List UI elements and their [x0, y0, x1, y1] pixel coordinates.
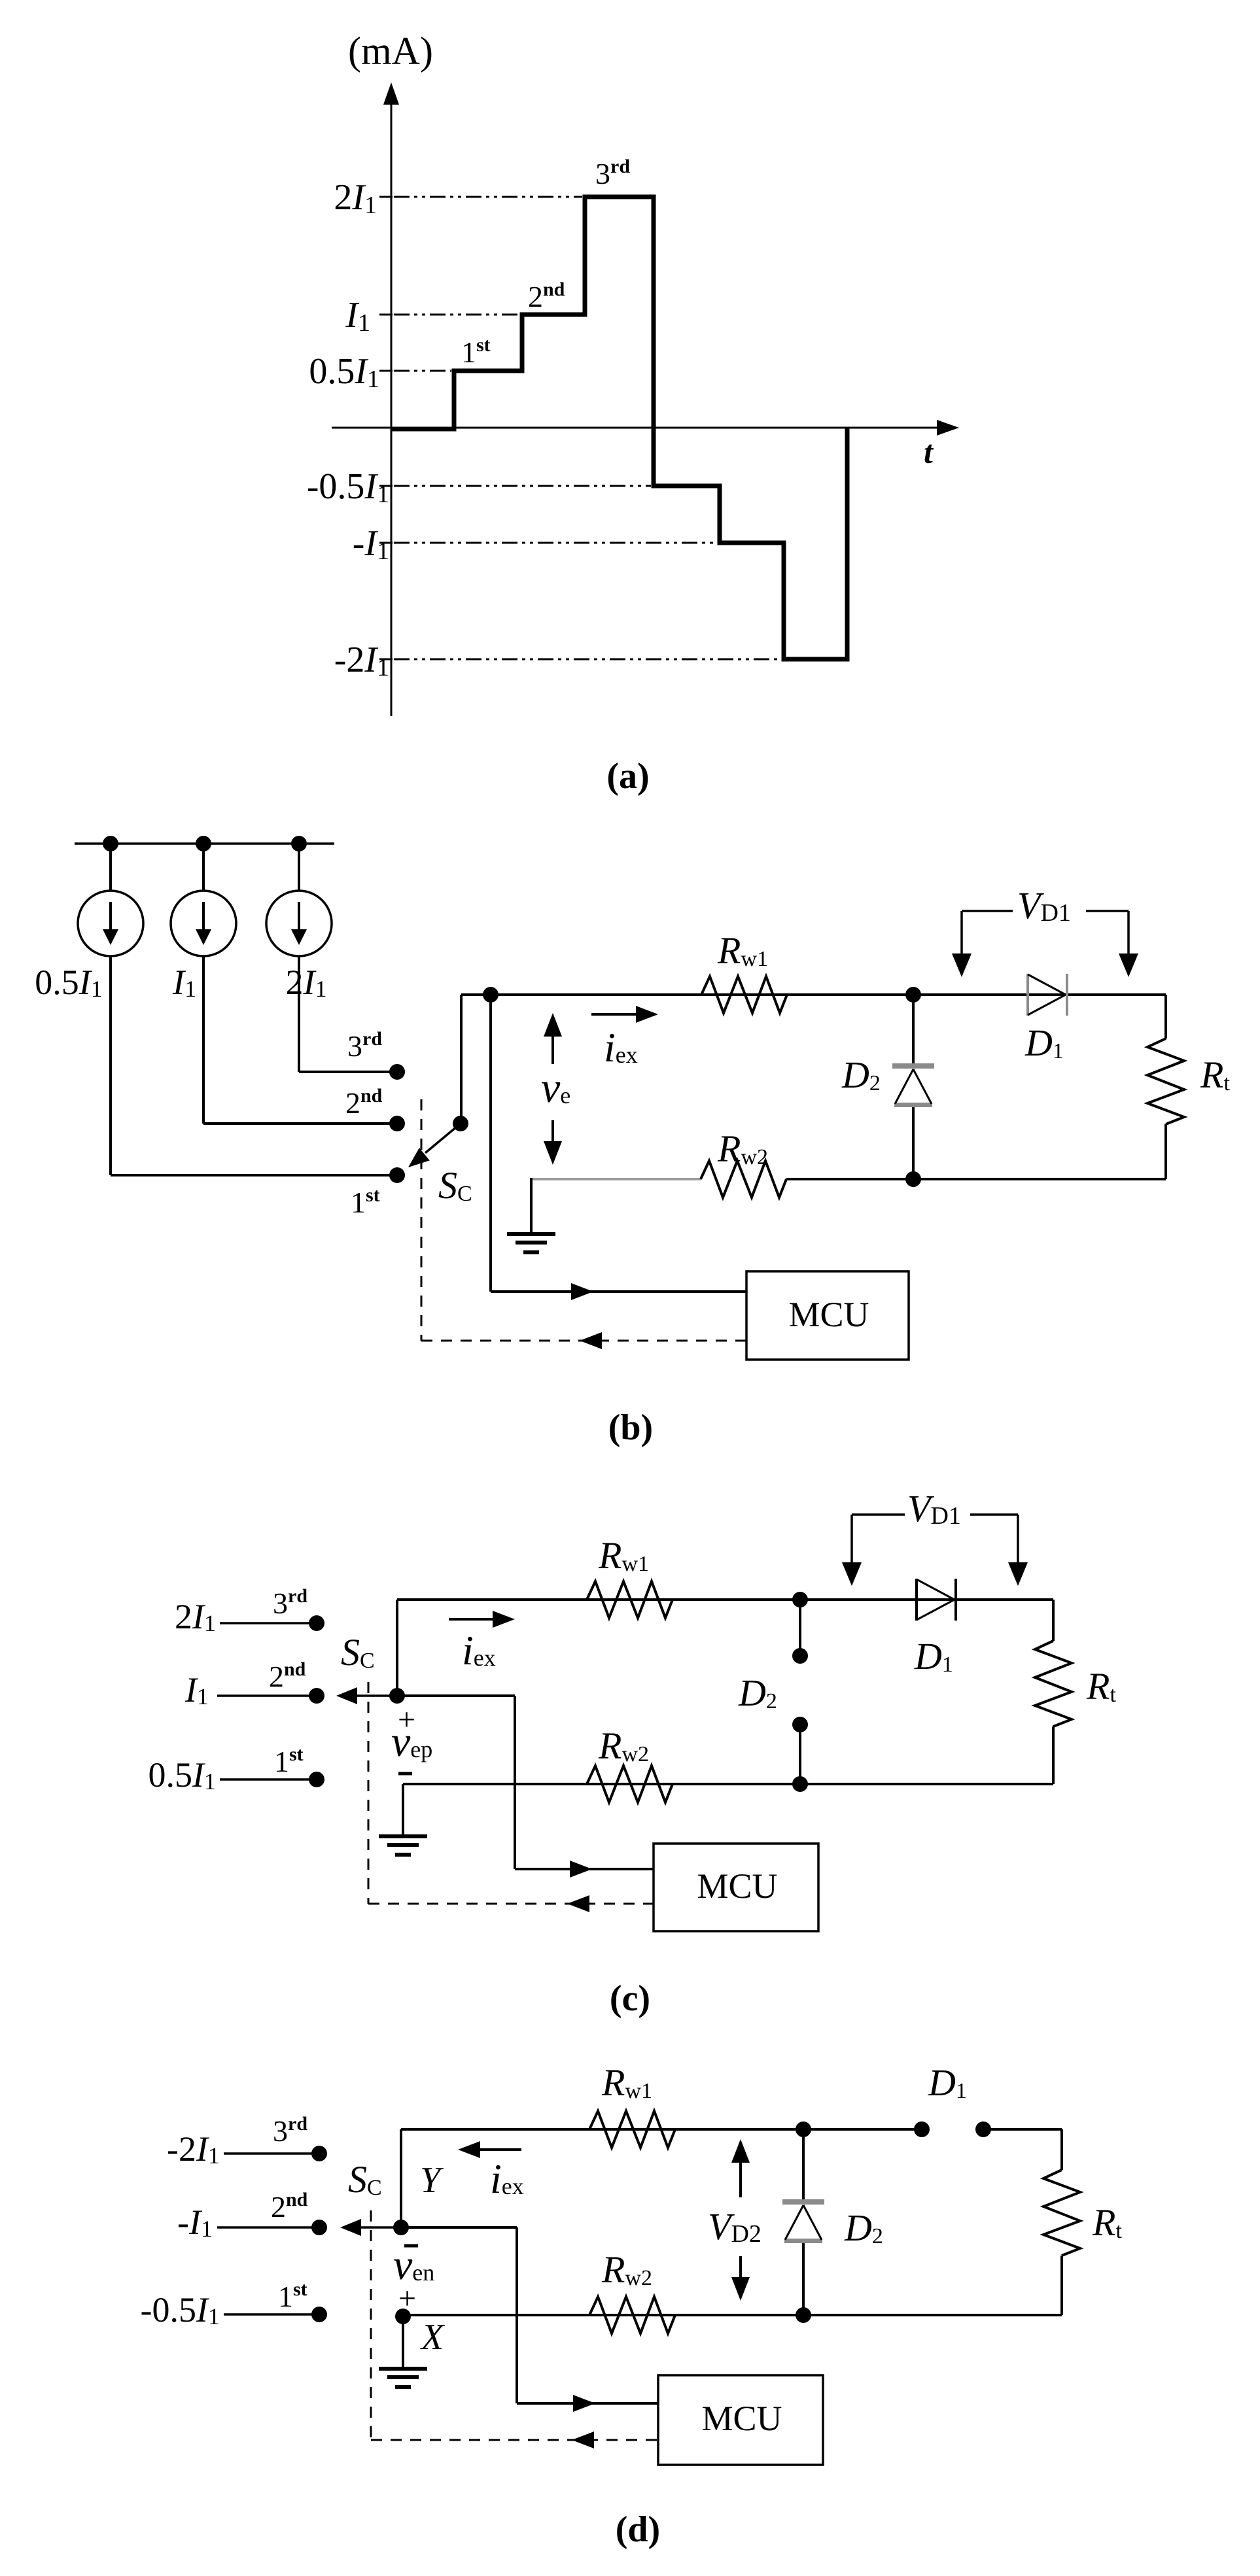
svg-text:-0.5I1: -0.5I1	[141, 2290, 220, 2329]
svg-text:(a): (a)	[606, 756, 649, 797]
svg-text:MCU: MCU	[697, 1866, 777, 1906]
svg-text:MCU: MCU	[701, 2399, 782, 2438]
svg-text:(b): (b)	[608, 1407, 653, 1448]
svg-text:X: X	[420, 2317, 446, 2358]
svg-text:(mA): (mA)	[348, 29, 433, 73]
svg-text:MCU: MCU	[788, 1295, 869, 1334]
svg-text:(c): (c)	[610, 1978, 650, 2019]
svg-text:t: t	[924, 434, 934, 470]
svg-text:(d): (d)	[616, 2509, 660, 2550]
